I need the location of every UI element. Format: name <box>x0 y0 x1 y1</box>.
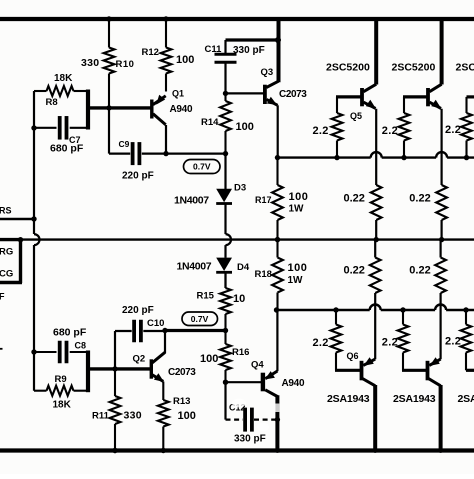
resistor R16 100 <box>224 331 226 345</box>
svg-text:1W: 1W <box>289 204 305 215</box>
wire -V bottom supply rail <box>0 448 474 452</box>
svg-text:C8: C8 <box>75 341 87 351</box>
transistor Q3 body bar <box>263 85 267 104</box>
svg-text:18K: 18K <box>54 73 73 84</box>
svg-text:2.2: 2.2 <box>382 125 398 137</box>
transistor 2SC5200 #1 emitter arrow <box>366 100 376 109</box>
svg-text:100: 100 <box>236 121 254 133</box>
svg-text:C2073: C2073 <box>279 89 307 100</box>
node combo left junction bottom <box>31 349 36 354</box>
transistor Q3 collector vertical (thick) <box>277 17 281 82</box>
node 2.2 #3 rail junction <box>464 155 469 160</box>
node R13 bottom junction <box>161 448 166 453</box>
svg-text:Q3: Q3 <box>261 67 274 78</box>
transistor Q2 collector diagonal <box>152 352 165 363</box>
node 2.2 bottom #2 rail junction <box>400 307 405 312</box>
node R16 bottom junction <box>223 380 228 385</box>
svg-text:220 pF: 220 pF <box>122 305 154 316</box>
svg-text:0.22: 0.22 <box>409 193 430 205</box>
svg-text:1N4007: 1N4007 <box>177 261 212 273</box>
svg-text:A940: A940 <box>282 378 305 389</box>
transistor 2SA1943 #2 emitter diagonal <box>429 359 440 365</box>
resistor R18 100 1W <box>276 240 278 258</box>
svg-text:R11: R11 <box>92 411 110 422</box>
svg-text:0.7V: 0.7V <box>193 162 211 172</box>
node R10 top rail junction <box>106 16 111 21</box>
svg-text:D4: D4 <box>237 262 250 273</box>
wire C9 left branch <box>108 107 110 154</box>
wire Q4 emitter vertical <box>276 310 278 371</box>
svg-text:100: 100 <box>289 191 309 203</box>
transistor 2SC5200 #1 collector diagonal <box>364 84 377 92</box>
label dash fragment <box>0 348 3 350</box>
wire Q1 base line (thick) <box>86 106 151 109</box>
wire top emitter rail <box>278 156 371 158</box>
svg-text:100: 100 <box>200 353 218 365</box>
wire Q2 base line (thick) <box>86 367 151 370</box>
svg-text:RS: RS <box>0 206 12 216</box>
transistor 2SC5200 #2 collector diagonal <box>430 84 442 92</box>
resistor 0.22 bottom #1 <box>374 240 376 258</box>
wire combo right side vertical bottom (thick) <box>86 351 90 393</box>
svg-text:680 pF: 680 pF <box>53 327 87 339</box>
svg-text:2SC5200: 2SC5200 <box>326 62 370 74</box>
resistor 0.22 top #1 <box>371 185 382 220</box>
svg-text:220 pF: 220 pF <box>122 171 154 182</box>
transistor Q2 body bar <box>150 359 153 378</box>
wire combo right side vertical (thick) <box>86 90 90 130</box>
svg-text:2SC5200: 2SC5200 <box>456 62 474 74</box>
node output col2 junction <box>439 237 444 242</box>
svg-text:680 pF: 680 pF <box>50 143 84 155</box>
node base junction C10/R11 <box>112 366 117 371</box>
svg-text:0.22: 0.22 <box>344 265 365 277</box>
transistor 2SA1943 #1 emitter arrow (PNP) <box>364 357 374 366</box>
capacitor C7 680pF <box>34 127 57 129</box>
resistor R8 18K horizontal <box>34 90 47 92</box>
node bottom rail Q4 collector <box>275 448 280 453</box>
svg-text:0.7V: 0.7V <box>191 314 209 324</box>
svg-text:R9: R9 <box>55 374 67 385</box>
wire C10 right <box>143 330 165 332</box>
node R15 bottom junction <box>223 328 228 333</box>
node rail157 left junction <box>275 155 280 160</box>
transistor 2SA1943 #2 emitter arrow (PNP) <box>430 357 440 366</box>
transistor Q3 emitter diagonal <box>267 99 278 105</box>
capacitor C11 330pF <box>224 40 226 53</box>
transistor Q3 emitter arrow (NPN) <box>267 97 277 105</box>
svg-text:2SC5200: 2SC5200 <box>392 62 436 74</box>
wire RS line <box>0 218 34 221</box>
transistor Q1 emitter arrow (PNP) <box>156 95 165 105</box>
resistor 2.2 base #3 partial <box>467 95 474 98</box>
transistor Q4 collector diagonal <box>265 390 277 397</box>
node C12 right junction <box>275 417 280 422</box>
transistor Q3 collector diagonal <box>266 81 278 87</box>
transistor Q2 emitter arrow (NPN) <box>154 373 164 382</box>
wire 2SC5200 #1 base line (thick) <box>336 95 362 98</box>
svg-text:10: 10 <box>233 293 245 305</box>
node 2.2 bottom #1 rail junction <box>333 307 338 312</box>
node base junction R10/C9 <box>106 105 111 110</box>
transistor Q4 emitter arrow (PNP) <box>265 371 275 379</box>
transistor Q1 collector diagonal <box>153 114 166 125</box>
transistor Q4 collector vertical (thick) <box>275 395 279 452</box>
svg-text:100: 100 <box>176 54 194 66</box>
node C10 right junction <box>162 328 167 333</box>
node output R17 junction <box>275 237 280 242</box>
capacitor C12 330pF <box>226 419 244 421</box>
svg-text:330: 330 <box>81 57 99 69</box>
transistor Q1 body bar <box>150 100 153 119</box>
wire Q3 base line <box>226 92 265 94</box>
wire 2SC5200 #1 emitter vertical <box>375 109 377 185</box>
svg-text:2SA1943: 2SA1943 <box>458 393 474 405</box>
svg-text:1W: 1W <box>288 275 304 286</box>
svg-text:2.2: 2.2 <box>445 124 461 136</box>
node output col1 junction <box>374 237 379 242</box>
node R14 bottom junction <box>223 151 228 156</box>
svg-text:0.22: 0.22 <box>409 265 430 277</box>
transistor Q2 emitter diagonal <box>152 375 163 382</box>
wire input column vertical <box>33 91 35 234</box>
transistor Q4 body bar <box>261 373 265 392</box>
transistor 2SC5200 #2 collector vertical (thick) <box>440 17 444 85</box>
capacitor C9 220pF <box>131 142 135 165</box>
svg-text:R12: R12 <box>142 47 159 58</box>
svg-text:2.2: 2.2 <box>313 337 329 349</box>
node bottom rail col1 <box>373 448 378 453</box>
svg-text:RG: RG <box>0 247 13 258</box>
svg-text:2SA1943: 2SA1943 <box>393 393 436 405</box>
svg-text:D3: D3 <box>234 183 246 194</box>
node 2.2 #2 rail junction <box>401 155 406 160</box>
wire 2SC5200 #2 emitter vertical <box>441 109 443 185</box>
svg-text:18K: 18K <box>53 400 72 411</box>
wire 2SC5200 #2 base line (thick) <box>403 95 428 98</box>
resistor 0.22 top #2 <box>436 185 447 220</box>
transistor 2SC5200 #1 collector vertical (thick) <box>374 17 378 85</box>
wire node to D3 junction <box>166 153 226 155</box>
transistor 2SA1943 #2 collector diagonal <box>429 379 441 386</box>
resistor R14 100 <box>224 93 226 101</box>
svg-text:2.2: 2.2 <box>313 125 329 137</box>
node R11 bottom junction <box>112 448 117 453</box>
node Q1 collector junction <box>163 151 168 156</box>
wire jump input column over output line <box>34 234 40 245</box>
svg-text:R13: R13 <box>173 396 190 407</box>
resistor 0.22 bottom #2 <box>440 240 442 258</box>
resistor R12 100 <box>165 19 167 48</box>
node RS junction <box>31 216 36 221</box>
transistor 2SC5200 #2 emitter arrow <box>431 100 441 109</box>
resistor R15 10 <box>224 272 226 288</box>
label 0.7V oval bottom <box>182 312 218 326</box>
node 2.2 #1 rail junction <box>334 155 339 160</box>
resistor R13 100 <box>162 382 164 401</box>
svg-text:R8: R8 <box>46 97 58 108</box>
svg-text:Q6: Q6 <box>347 351 359 361</box>
wire bottom emitter rail <box>277 309 370 311</box>
svg-text:C10: C10 <box>147 318 164 329</box>
svg-text:R17: R17 <box>255 195 272 205</box>
diode D3 1N4007 <box>224 154 226 189</box>
transistor 2SC5200 #1 body bar <box>360 88 364 106</box>
resistor R11 330 <box>114 369 116 396</box>
label 0.7V oval top <box>184 160 221 174</box>
svg-text:Q2: Q2 <box>133 354 146 365</box>
transistor 2SA1943 #1 collector vertical (thick) <box>373 385 377 452</box>
svg-text:C11: C11 <box>205 44 223 55</box>
svg-text:Q4: Q4 <box>251 360 264 371</box>
svg-text:1N4007: 1N4007 <box>174 195 209 207</box>
wire C11 top to Q3 collector <box>226 38 279 41</box>
transistor 2SA1943 #1 collector diagonal <box>363 379 376 386</box>
svg-text:330 pF: 330 pF <box>233 45 265 56</box>
svg-text:2.2: 2.2 <box>445 336 461 348</box>
wire jump diode column over output line <box>226 234 232 245</box>
svg-text:CG: CG <box>0 269 13 280</box>
svg-text:R18: R18 <box>255 269 272 280</box>
wire 2SA1943 #2 base line (thick) <box>402 369 428 372</box>
wire Q2 collector vertical <box>164 331 166 354</box>
wire Q3 emitter vertical <box>277 105 279 157</box>
resistor 2.2 base #2 <box>403 97 405 113</box>
wire C9 right <box>142 153 166 155</box>
resistor R10 330 <box>108 19 110 48</box>
svg-text:C9: C9 <box>119 139 130 149</box>
node R17 bottom junction <box>275 237 280 242</box>
svg-text:330: 330 <box>124 410 142 422</box>
node combo left junction <box>31 125 36 130</box>
transistor 2SA1943 #2 collector vertical (thick) <box>439 385 443 452</box>
transistor 2SC5200 #1 emitter diagonal <box>364 102 376 108</box>
resistor 2.2 base bottom #1 <box>335 310 337 325</box>
wire +V top supply rail <box>0 17 474 21</box>
capacitor C10 220pF <box>132 320 136 343</box>
node rail310 left junction <box>274 307 279 312</box>
svg-text:R16: R16 <box>232 347 249 358</box>
svg-text:2SA1943: 2SA1943 <box>327 393 370 405</box>
wire Q1 collector to node <box>165 125 167 154</box>
node input box corner <box>18 237 23 242</box>
transistor 2SC5200 #2 body bar <box>426 88 430 106</box>
wire Q4 base line <box>226 381 263 383</box>
resistor 2.2 base #1 <box>336 97 338 113</box>
node C11 top junction <box>275 37 281 43</box>
wire 2SA1943 #1 base line (thick) <box>335 369 362 372</box>
svg-text:100: 100 <box>288 262 308 274</box>
node bottom rail col2 <box>438 448 443 453</box>
node R12 top rail junction <box>163 16 168 21</box>
capacitor C8 680pF <box>34 351 57 353</box>
transistor 2SC5200 #2 emitter diagonal <box>430 102 442 108</box>
wire output line <box>0 238 474 240</box>
transistor 2SA1943 #1 body bar <box>360 361 364 381</box>
svg-text:100: 100 <box>178 410 196 422</box>
node 2.2 bottom #3 rail junction <box>463 307 468 312</box>
svg-text:R14: R14 <box>201 117 219 128</box>
svg-text:330 pF: 330 pF <box>234 434 266 445</box>
transistor 2SA1943 #2 body bar <box>426 361 430 381</box>
box input source (cut off) <box>19 240 22 283</box>
wire R16 junction down to C12 <box>224 382 226 419</box>
diode D4 1N4007 <box>224 245 226 258</box>
resistor R17 100 1W <box>276 158 278 185</box>
transistor Q4 emitter diagonal <box>265 371 277 379</box>
svg-text:R15: R15 <box>197 291 215 302</box>
wire C10 left branch <box>115 330 132 332</box>
svg-text:F: F <box>0 292 5 302</box>
svg-text:0.22: 0.22 <box>344 193 365 205</box>
resistor 2.2 base bottom #3 partial <box>466 369 474 372</box>
watermark white blobs (decor omitted from labeling) <box>232 399 279 432</box>
svg-text:R10: R10 <box>116 59 135 70</box>
svg-text:A940: A940 <box>170 104 193 115</box>
wire 0.7V line bottom (thick) <box>165 329 226 332</box>
node Q3 base junction <box>223 91 228 96</box>
resistor 2.2 base bottom #2 <box>402 310 404 325</box>
transistor 2SA1943 #1 emitter diagonal <box>363 359 375 365</box>
resistor R9 18K horizontal <box>34 390 47 392</box>
node bottom rail R11 <box>112 448 117 453</box>
svg-text:2.2: 2.2 <box>382 337 398 349</box>
svg-text:Q1: Q1 <box>172 89 184 99</box>
transistor Q1 emitter diagonal <box>153 96 166 105</box>
svg-text:Q5: Q5 <box>350 111 362 121</box>
svg-text:C2073: C2073 <box>168 367 196 378</box>
